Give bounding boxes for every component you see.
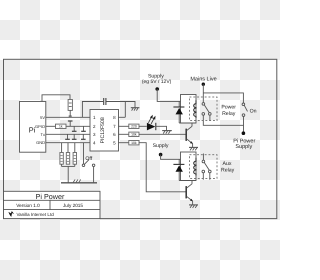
resistor R4 (pulldown 2) — [66, 143, 69, 165]
svg-text:Relay: Relay — [222, 111, 236, 117]
relay RL1 body — [181, 95, 197, 124]
resistor R8 (Q2 base) — [129, 141, 139, 146]
relay RL2 dashed boundary — [190, 155, 218, 179]
svg-text:GND: GND — [36, 140, 45, 145]
wire R3/R4 bottom join and drop — [62, 166, 75, 182]
capacitor C7 (below w3 at x=83.3) — [81, 134, 86, 139]
svg-text:Supply: Supply — [153, 143, 169, 149]
svg-text:GPIO: GPIO — [35, 124, 45, 129]
svg-text:(eg 5V / 12V): (eg 5V / 12V) — [142, 79, 172, 85]
ground (PIC pin8 net) — [131, 108, 140, 111]
wire mains tee to On switch — [203, 93, 243, 103]
resistor R7 (Q1 base) — [129, 132, 139, 137]
svg-text:Version 1.0: Version 1.0 — [16, 203, 40, 208]
wire supply to relay RL1 — [157, 89, 180, 101]
svg-text:10k: 10k — [131, 133, 137, 137]
diode D2 (flyback, power relay) — [173, 101, 196, 123]
svg-text:PIC12F508: PIC12F508 — [100, 117, 106, 143]
wire GND net w4 Pi to PIC pin4 — [46, 142, 90, 144]
wire relay NC contact stub — [209, 115, 211, 120]
Pi board U2 — [20, 102, 46, 153]
resistor R3 (pulldown 1) — [60, 143, 63, 167]
wire C1 right to pin8 riser — [106, 102, 125, 118]
capacitor C4 (below w2 at x=83.5) — [81, 126, 86, 131]
wire On switch to Pi power node — [243, 117, 245, 134]
svg-text:On: On — [250, 109, 257, 115]
resistor R6 (LED series) — [129, 124, 139, 129]
wire LED to ground — [156, 126, 167, 130]
ground (Q1 emitter) — [189, 147, 198, 150]
capacitor C2 (above w2 at x=70) — [68, 121, 73, 126]
switch SW2 On — [242, 103, 257, 116]
ground (LED) — [162, 131, 172, 134]
relay RL1 contacts — [202, 103, 211, 116]
transistor Q2 — [186, 181, 193, 205]
ground rail (bottom) — [61, 180, 97, 183]
svg-text:220: 220 — [131, 125, 137, 129]
transistor Q1 — [186, 123, 193, 147]
wire PIC pin5 to R8 — [119, 142, 129, 144]
label Power Relay — [221, 105, 236, 117]
resistor R2 (GPIO series) — [56, 124, 67, 129]
svg-text:July 2015: July 2015 — [63, 203, 83, 208]
schematic border frame — [4, 59, 277, 218]
node Supply (aux relay) — [153, 143, 169, 156]
diode D3 (flyback, aux relay) — [173, 159, 196, 180]
wire C1 left lead from w1 — [82, 102, 103, 118]
relay RL2 body — [181, 152, 197, 181]
node Mains Live — [190, 76, 216, 86]
svg-text:Relay: Relay — [221, 168, 235, 174]
wire PIC pin6 to R7 — [119, 133, 129, 135]
resistor R5 (pulldown 3) — [73, 143, 76, 167]
capacitor C3 (below w2 at x=74) — [72, 126, 77, 131]
wire R8 to Q2 base — [139, 143, 186, 192]
LED D1 — [147, 115, 156, 131]
wire R7 to Q1 base — [139, 133, 186, 135]
svg-text:Vanilla Internet Ltd: Vanilla Internet Ltd — [17, 212, 55, 217]
wire riser spur to ground — [125, 102, 135, 108]
wire aux supply to relay RL2 — [161, 155, 181, 160]
wire Tx net w3 Pi to PIC pin3 — [46, 133, 90, 135]
ground (Q2 emitter) — [189, 205, 198, 208]
node Supply (power relay) — [142, 73, 172, 90]
wire R2 to PIC pin2 — [66, 125, 90, 127]
wire mains to relay common contact — [202, 84, 204, 102]
capacitor C6 (below w3 at x=74.2) — [72, 134, 77, 139]
op-amp U1 PIC12F508 — [90, 110, 119, 152]
wire PIC pin8 to riser — [119, 116, 126, 118]
switch SW1 Off — [82, 143, 95, 183]
capacitor C5 (below w3 at x=67.5) — [65, 134, 70, 139]
wire R6 to LED D1 — [139, 125, 147, 127]
title block — [4, 191, 101, 218]
wire relay output to Pi power node — [203, 115, 243, 125]
relay RL1 dashed boundary — [190, 97, 218, 121]
svg-text:Mains Live: Mains Live — [190, 76, 216, 82]
wire GPIO net w2 Pi to R2 — [46, 125, 56, 127]
wire 5V net w1 Pi to PIC pin1 — [46, 116, 90, 118]
svg-text:Off: Off — [85, 156, 92, 162]
LED arrows — [148, 117, 151, 122]
svg-text:Pi Power: Pi Power — [36, 192, 65, 201]
svg-text:10k: 10k — [131, 141, 137, 145]
label Aux Relay — [221, 161, 235, 174]
node Pi Power Supply — [233, 131, 255, 150]
svg-text:5V: 5V — [40, 115, 45, 120]
svg-text:Power: Power — [221, 105, 236, 111]
wire Pi top loop to R1 — [42, 95, 70, 102]
svg-text:Supply: Supply — [235, 144, 252, 150]
svg-text:Aux: Aux — [223, 161, 232, 167]
logo Vanilla Internet — [8, 211, 13, 217]
resistor R1 (vertical, top) — [68, 100, 72, 117]
capacitor C1 (top, on VDD loop) — [104, 98, 106, 105]
wire PIC pin7 to R6 — [119, 125, 129, 127]
relay RL2 contacts — [202, 154, 211, 180]
relay RL2 coil — [194, 158, 196, 176]
svg-text:1k: 1k — [59, 125, 63, 129]
relay RL1 coil — [194, 100, 196, 118]
svg-text:Tx: Tx — [41, 132, 45, 137]
